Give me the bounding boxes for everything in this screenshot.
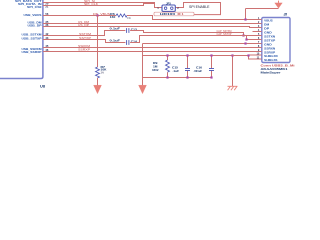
svg-text:SPI_CLK: SPI_CLK (84, 2, 98, 6)
svg-text:J8: J8 (284, 12, 288, 16)
resistor R9 (166, 60, 170, 72)
ground arrow shield (139, 85, 147, 93)
svg-text:M 1: M 1 (178, 12, 185, 16)
junction SSTXP row (245, 38, 247, 40)
svg-text:USB_SSTXP: USB_SSTXP (22, 36, 42, 40)
connector pin 10 stub (253, 54, 262, 56)
capacitor C15 (185, 69, 190, 71)
connector pin 6 stub (253, 39, 262, 41)
svg-text:JP3: JP3 (166, 2, 172, 5)
svg-text:.001uF: .001uF (194, 70, 203, 73)
wire SSRXM (43, 47, 253, 49)
junction C15 top (186, 54, 188, 56)
junction C15 bottom (186, 76, 188, 78)
svg-text:0.1uF: 0.1uF (110, 38, 121, 42)
svg-text:US_DP: US_DP (78, 23, 89, 27)
junction R7 tap (96, 14, 98, 16)
svg-text:SPI ENABLE: SPI ENABLE (189, 5, 210, 9)
svg-text:10K: 10K (101, 69, 107, 72)
shield bottom rail (143, 77, 212, 79)
svg-text:SSTXP: SSTXP (79, 36, 91, 40)
svg-text:1M: 1M (153, 66, 158, 69)
capacitor C14 (127, 40, 129, 45)
wire R7 from VBUS line (97, 16, 99, 68)
resistor R6 (116, 14, 127, 17)
connector pin 3 stub (253, 27, 262, 29)
wire SSTXM from pin42 (43, 31, 125, 36)
resistor R7 (96, 67, 100, 78)
svg-text:HD100: HD100 (160, 12, 176, 16)
junction earth rail (231, 54, 233, 56)
svg-text:160: 160 (110, 16, 116, 19)
connector pin 7 stub (253, 43, 262, 45)
svg-text:0.1uF: 0.1uF (110, 26, 121, 30)
earth ground wire (232, 56, 234, 87)
junction SSTXN (242, 34, 244, 36)
wire C13 out to connector SSTXN (130, 31, 252, 36)
junction C16 bottom (210, 76, 212, 78)
svg-text:SSRXP: SSRXP (78, 47, 90, 51)
capacitor C16 (209, 69, 214, 71)
connector pin 1 stub (253, 19, 262, 21)
wire down to connector VBUS pin (245, 9, 247, 20)
wire pin21 stair (43, 4, 155, 6)
wire VBUS feed with power arrow (246, 8, 279, 10)
wire pin20 to jumper pin1 (43, 3, 162, 8)
junction R9 bottom (166, 76, 168, 78)
connector pin 9 stub (253, 51, 262, 53)
svg-text:.1uF: .1uF (173, 70, 180, 73)
svg-text:C16: C16 (196, 66, 203, 69)
junction GND row (244, 42, 246, 44)
connector pin 5 stub (253, 35, 262, 37)
resistor R9 leads (167, 56, 169, 61)
wire jumper pin2 loop (175, 3, 220, 15)
junction R9 top (166, 54, 168, 56)
ground arrow R7 (94, 85, 102, 93)
svg-text:MainSuper: MainSuper (261, 71, 282, 75)
wire R7 to ground (97, 78, 99, 87)
svg-text:DN_VBUS: DN_VBUS (93, 12, 110, 16)
svg-text:U8: U8 (40, 83, 46, 88)
wire US_DP (43, 27, 253, 28)
capacitor C13 (127, 28, 129, 33)
junction shield (247, 54, 249, 56)
shield top rail (143, 55, 233, 57)
power arrow VBUS (275, 3, 283, 8)
capacitor C16 leads (211, 56, 213, 69)
earth ground symbol (chassis) (228, 86, 238, 90)
wire shield1 (249, 56, 253, 60)
jumper JP3 (162, 5, 175, 11)
shield rail to connector SHIELD pins (233, 54, 253, 57)
wire SSTXP from pin43 (43, 40, 125, 43)
wire shield vertical (142, 44, 144, 87)
svg-text:USB_DP: USB_DP (28, 24, 42, 28)
wire US_DM (43, 23, 253, 25)
wire SSRXP (43, 51, 253, 53)
connector pin 2 stub (253, 23, 262, 25)
svg-text:SHIELD1: SHIELD1 (264, 58, 278, 62)
wire pin56 DN_VBUS (43, 15, 116, 17)
svg-text:0402: 0402 (152, 69, 159, 72)
wire R6 output to jumper pin2 loop (127, 16, 253, 20)
jumper footprint box (154, 12, 194, 16)
svg-text:USB_VBUS: USB_VBUS (24, 13, 42, 17)
connector pin 8 stub (253, 47, 262, 49)
svg-text:1%: 1% (101, 72, 104, 74)
svg-text:SPI_CS0: SPI_CS0 (27, 5, 42, 9)
junction VBUS (244, 18, 246, 20)
capacitor C15 leads (187, 56, 189, 69)
junction C16 top (210, 54, 212, 56)
svg-text:CAP_SSTXP: CAP_SSTXP (217, 32, 232, 36)
connector pin 11 stub (253, 58, 262, 60)
IC U8 body edge (0, 0, 43, 79)
connector pin 4 stub (253, 31, 262, 33)
connector J8 box (262, 18, 290, 63)
svg-text:1%: 1% (127, 18, 130, 20)
wire GND row feed (143, 43, 253, 45)
svg-text:C15: C15 (172, 66, 179, 69)
wire C14 out to connector SSTXP (130, 36, 252, 43)
svg-text:USB_SSRXP: USB_SSRXP (22, 50, 42, 54)
